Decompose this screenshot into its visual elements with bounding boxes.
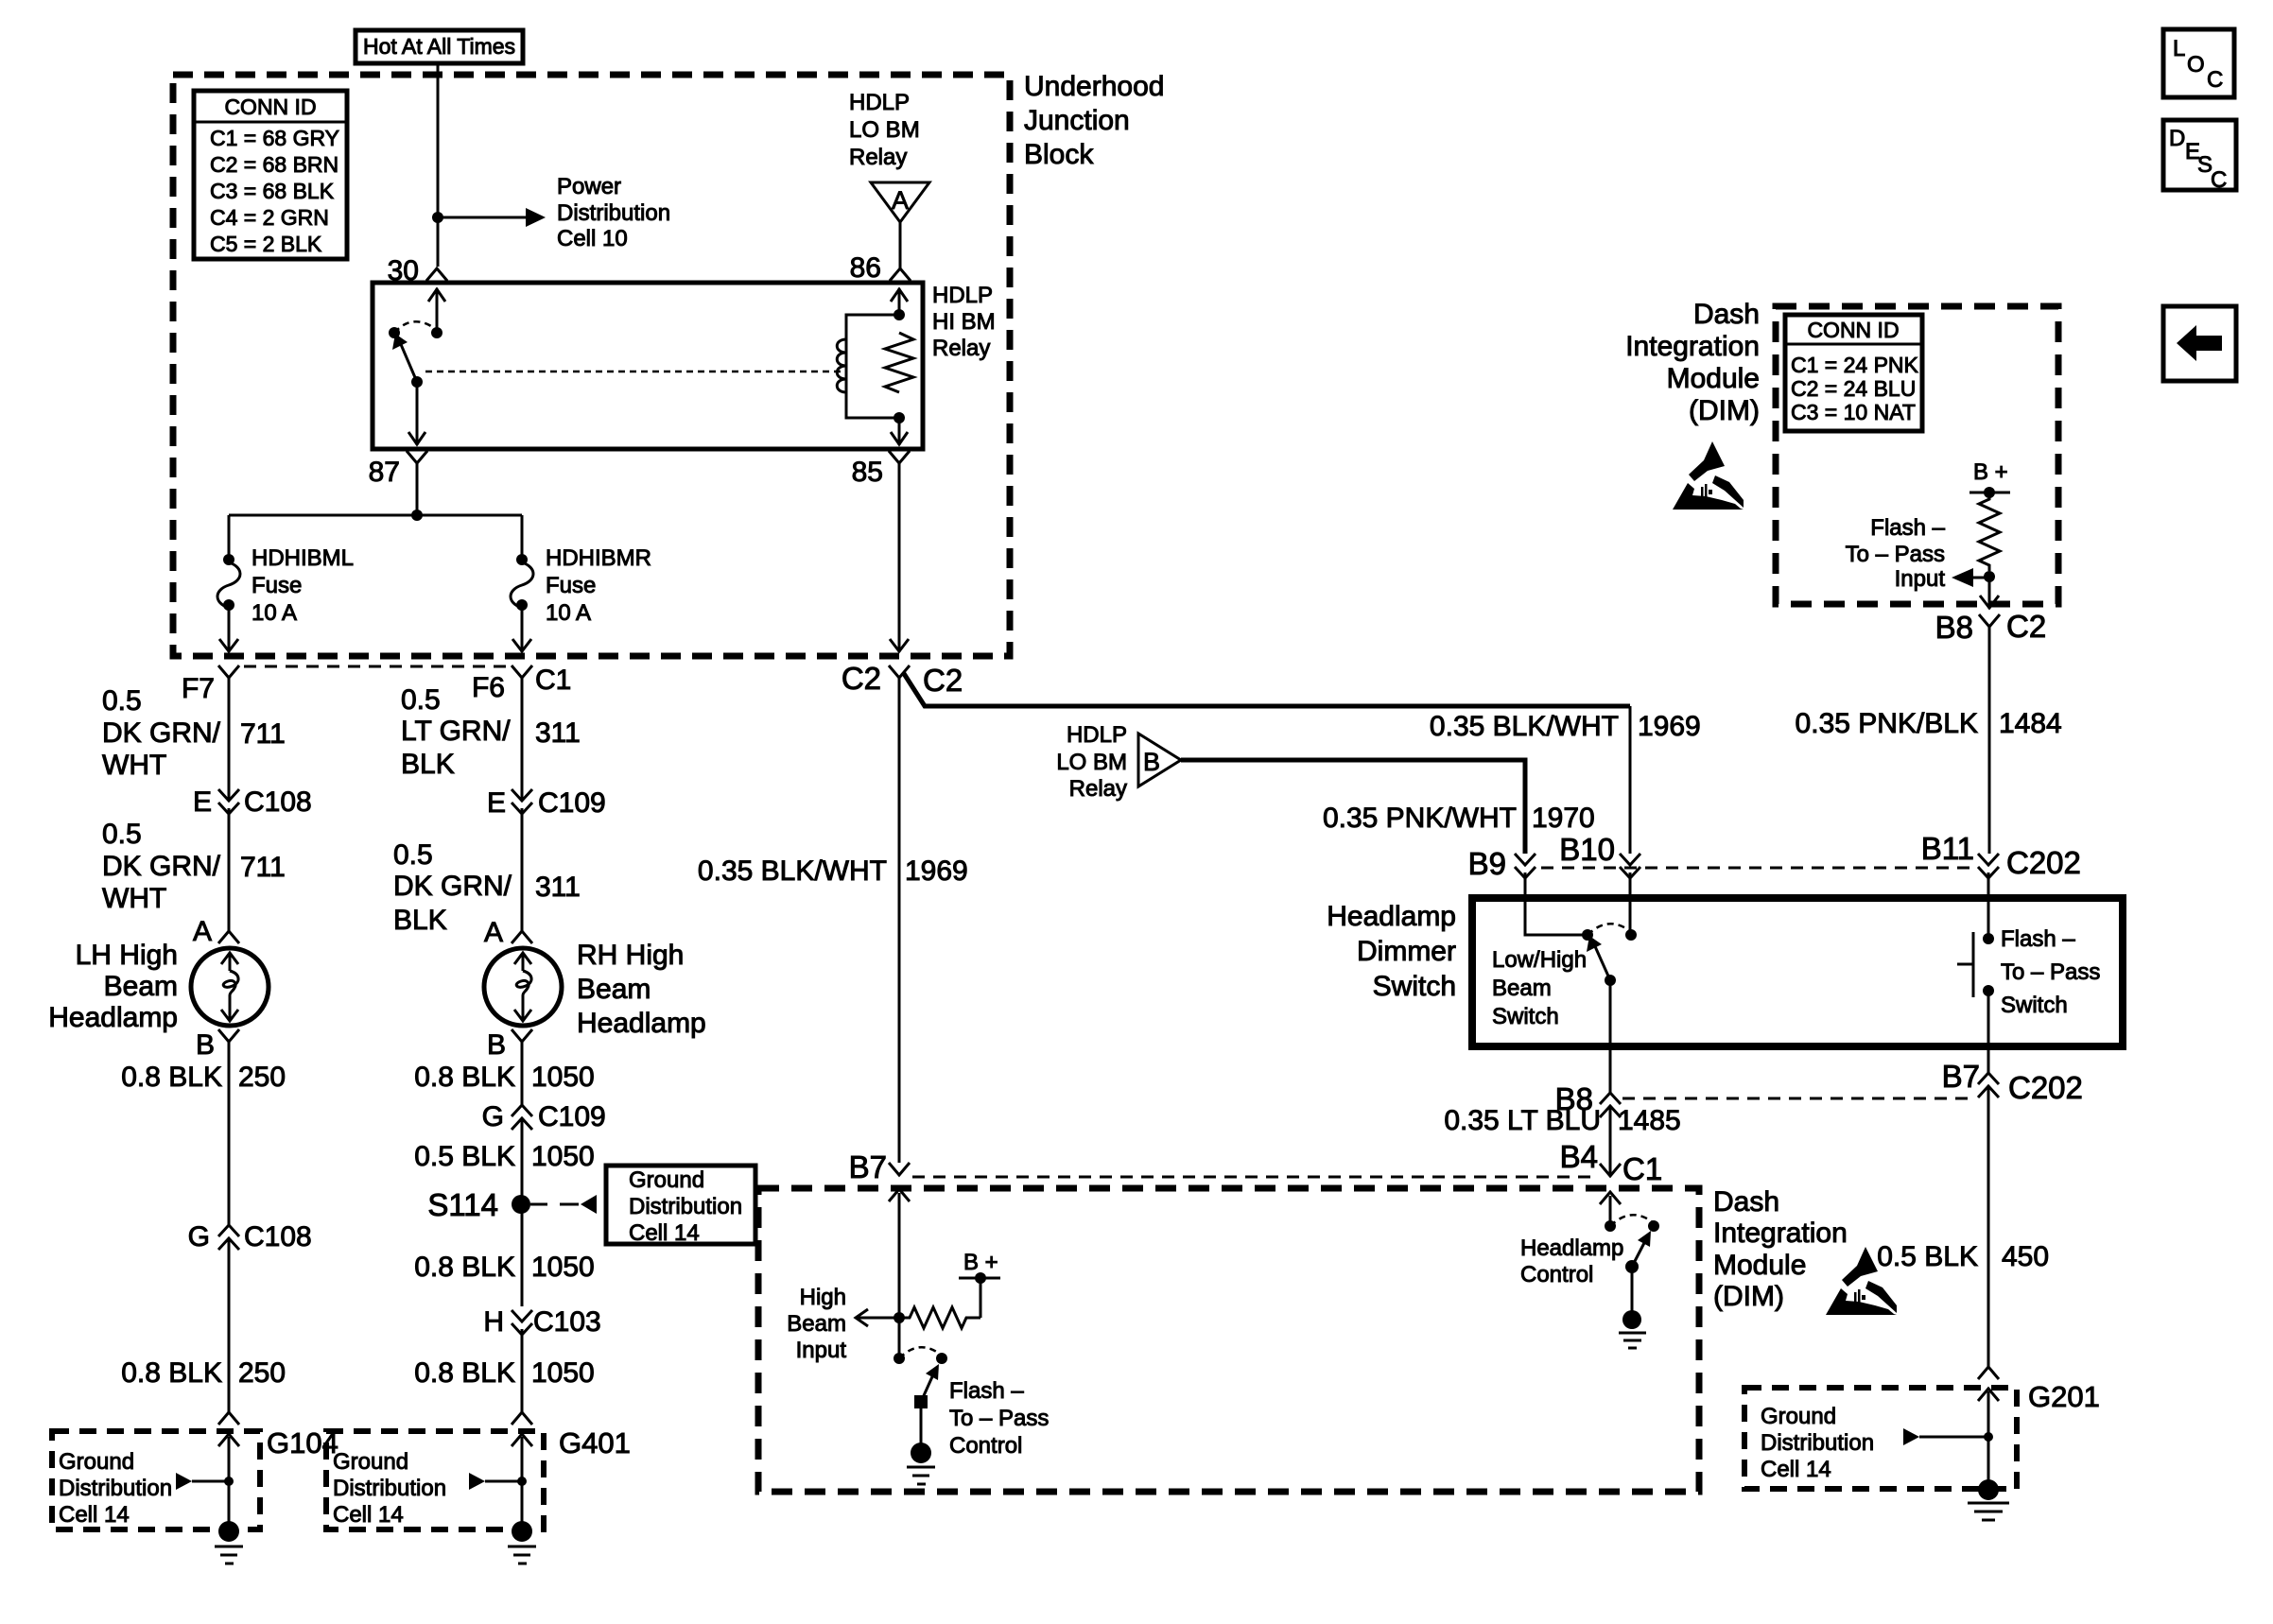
svg-text:LO BM: LO BM xyxy=(849,117,920,143)
DESC box xyxy=(2163,120,2236,193)
label Low/High Beam Switch xyxy=(1492,947,1587,1029)
wire arm to ground (FTP control) xyxy=(920,1402,923,1444)
flash-to-pass control throw arc xyxy=(899,1347,942,1358)
label High Beam Input xyxy=(787,1285,846,1363)
label HDLP HI BM Relay xyxy=(932,283,996,361)
wire arm to ground (headlamp control) xyxy=(1631,1267,1634,1312)
underhood junction block dashed box xyxy=(173,75,1010,656)
connector chevron B7 into DIM xyxy=(889,1189,910,1318)
svg-text:10 A: 10 A xyxy=(546,600,591,626)
svg-text:LO BM: LO BM xyxy=(1056,750,1127,775)
svg-text:C3 = 10 NAT: C3 = 10 NAT xyxy=(1791,400,1916,424)
svg-text:Cell 14: Cell 14 xyxy=(1761,1457,1831,1482)
connector fork at lamp pin B xyxy=(218,1029,239,1042)
svg-text:B8: B8 xyxy=(1935,610,1973,645)
LH high beam headlamp bulb xyxy=(191,948,269,1026)
HDLP LO BM Relay label (mid) xyxy=(1056,722,1127,802)
svg-text:Input: Input xyxy=(1895,566,1946,592)
svg-text:C3 = 68 BLK: C3 = 68 BLK xyxy=(210,179,335,203)
connector fork C2 xyxy=(889,665,910,678)
connector B7 right xyxy=(1978,1073,1999,1097)
svg-text:Junction: Junction xyxy=(1024,105,1130,136)
LOC box xyxy=(2163,29,2234,97)
svg-text:H: H xyxy=(483,1306,504,1338)
svg-text:1485: 1485 xyxy=(1618,1105,1681,1136)
svg-text:HDLP: HDLP xyxy=(932,283,993,308)
connector fork at RH lamp pin A xyxy=(512,931,532,943)
wire pin 85 down to UJB edge xyxy=(890,463,909,652)
fuse HDHIBML xyxy=(217,554,240,611)
relay pin 87 internal wire xyxy=(408,382,425,445)
svg-text:C2 = 24 BLU: C2 = 24 BLU xyxy=(1791,376,1916,401)
wire switch to B7 xyxy=(1987,991,1990,1073)
wire into G201 ground xyxy=(1987,1391,1990,1482)
connector fork F6 xyxy=(512,665,532,678)
relay switch pivot node xyxy=(389,327,400,338)
svg-text:C: C xyxy=(2207,67,2223,93)
low/high beam switch pivot node xyxy=(1582,929,1593,941)
wire branch to Power Distribution xyxy=(438,216,531,219)
label Dash Integration Module DIM (upper) xyxy=(1625,299,1760,426)
svg-text:Ground: Ground xyxy=(59,1449,134,1475)
svg-text:WHT: WHT xyxy=(102,883,166,914)
svg-text:Power: Power xyxy=(557,174,621,199)
svg-text:Distribution: Distribution xyxy=(1761,1430,1874,1456)
connector fork at RH lamp pin B xyxy=(512,1029,532,1042)
wire down to HDHIBML fuse xyxy=(228,515,231,560)
label 0.5 DK GRN/ BLK xyxy=(393,839,512,936)
wire pin 87 to fuse feed xyxy=(416,463,419,515)
svg-text:1969: 1969 xyxy=(905,855,968,887)
svg-text:A: A xyxy=(484,917,503,948)
svg-text:0.35 PNK/BLK: 0.35 PNK/BLK xyxy=(1796,708,1978,739)
flash-to-pass switch lower contact node xyxy=(1983,985,1994,996)
label LH High Beam Headlamp xyxy=(48,940,178,1033)
wire C2 down to B7 xyxy=(898,678,901,1163)
svg-text:HDHIBML: HDHIBML xyxy=(252,545,354,571)
wire F6 to C109 xyxy=(521,678,524,801)
wire C108 G to G104 xyxy=(228,1238,231,1412)
svg-text:HDLP: HDLP xyxy=(849,90,910,115)
svg-text:G201: G201 xyxy=(2028,1380,2100,1413)
svg-text:1050: 1050 xyxy=(531,1357,595,1389)
connector C202 dashed line (top row) xyxy=(1541,867,1976,870)
svg-text:1484: 1484 xyxy=(1999,708,2062,739)
svg-text:10 A: 10 A xyxy=(252,600,297,626)
svg-text:Cell 14: Cell 14 xyxy=(629,1220,700,1246)
ground G201 xyxy=(1968,1479,2009,1520)
headlamp control arm xyxy=(1632,1231,1651,1267)
svg-text:G: G xyxy=(188,1221,210,1253)
B+ terminal (DIM lower) xyxy=(959,1272,1000,1318)
svg-text:Relay: Relay xyxy=(849,145,907,170)
relay pin 30 internal arrow xyxy=(428,288,445,333)
svg-text:Module: Module xyxy=(1667,363,1760,394)
svg-text:B9: B9 xyxy=(1468,846,1506,881)
splice S114 xyxy=(512,1195,530,1214)
HDLP HI BM relay box xyxy=(373,283,923,449)
CONN ID table (UJB) xyxy=(194,91,347,259)
low/high beam switch arm node xyxy=(1605,975,1616,986)
svg-text:Distribution: Distribution xyxy=(333,1476,446,1501)
connector chevron into G104 xyxy=(218,1434,239,1446)
svg-text:To – Pass: To – Pass xyxy=(1846,542,1945,567)
svg-text:86: 86 xyxy=(850,252,881,284)
svg-text:Hot At All Times: Hot At All Times xyxy=(363,34,515,59)
wire jog from C2 to B10 drop xyxy=(903,672,1630,706)
wire down to HDHIBMR fuse xyxy=(521,515,524,560)
relay switch arm node xyxy=(411,376,423,388)
svg-text:DK GRN/: DK GRN/ xyxy=(393,871,512,902)
svg-text:711: 711 xyxy=(240,718,286,750)
svg-text:0.8 BLK: 0.8 BLK xyxy=(121,1062,222,1093)
svg-text:B7: B7 xyxy=(849,1149,887,1184)
wire B11 into switch box xyxy=(1987,872,1990,939)
wire F7 to C108 xyxy=(228,678,231,801)
svg-text:BLK: BLK xyxy=(393,905,447,936)
arrow to Power Distribution xyxy=(526,208,546,227)
svg-text:B4: B4 xyxy=(1560,1139,1598,1174)
svg-text:CONN ID: CONN ID xyxy=(1807,318,1899,342)
label Ground Distribution Cell 14 (S114) xyxy=(629,1167,742,1246)
svg-text:711: 711 xyxy=(240,852,286,883)
wire B7 down to G201 xyxy=(1987,1086,1990,1367)
HDLP LO BM Relay label (top) xyxy=(849,90,920,170)
wire triangle A to pin 86 xyxy=(899,222,902,268)
back arrow box xyxy=(2163,306,2236,381)
svg-text:S114: S114 xyxy=(427,1187,498,1222)
svg-text:C108: C108 xyxy=(244,1221,312,1253)
flash-to-pass control pivot node xyxy=(894,1353,905,1364)
ground (FTP control) xyxy=(907,1443,935,1484)
ground (headlamp control) xyxy=(1619,1310,1646,1348)
svg-text:C5 = 2 BLK: C5 = 2 BLK xyxy=(210,232,322,256)
svg-text:0.8 BLK: 0.8 BLK xyxy=(414,1062,515,1093)
ESD symbol (lower DIM) xyxy=(1826,1247,1897,1315)
svg-text:Distribution: Distribution xyxy=(59,1476,172,1501)
svg-text:Control: Control xyxy=(949,1433,1022,1459)
connector B8 xyxy=(1600,1093,1621,1117)
svg-text:0.5: 0.5 xyxy=(401,684,441,716)
ground G104 xyxy=(215,1521,243,1564)
high beam input junction node xyxy=(894,1312,905,1323)
svg-text:1969: 1969 xyxy=(1638,711,1701,742)
wire switch arm to B8 xyxy=(1609,980,1612,1093)
svg-text:C2: C2 xyxy=(923,663,963,698)
label Ground Distribution Cell 14 (G401) xyxy=(333,1449,446,1528)
wire RH lamp B to C109 G xyxy=(521,1042,524,1105)
label Flash To Pass Control xyxy=(949,1378,1049,1459)
label 0.5 DK GRN/ WHT xyxy=(102,685,221,781)
svg-text:(DIM): (DIM) xyxy=(1689,395,1760,426)
label Power Distribution Cell 10 xyxy=(557,174,670,251)
flash-to-pass input arrow xyxy=(1952,568,1989,587)
wire to flash-to-pass control switch xyxy=(898,1318,901,1358)
svg-text:85: 85 xyxy=(852,457,883,488)
svg-text:Distribution: Distribution xyxy=(557,200,670,226)
svg-text:Integration: Integration xyxy=(1713,1218,1848,1249)
svg-text:C1 = 24 PNK: C1 = 24 PNK xyxy=(1791,353,1919,377)
svg-text:DK GRN/: DK GRN/ xyxy=(102,717,221,749)
ESD symbol (upper DIM) xyxy=(1673,441,1744,510)
svg-text:Beam: Beam xyxy=(787,1311,846,1337)
in-line connector E C108 xyxy=(218,789,239,814)
flash-to-pass control contact node xyxy=(936,1353,947,1364)
ground distribution cell 14 box (G104) xyxy=(52,1431,260,1529)
svg-text:0.5 BLK: 0.5 BLK xyxy=(1877,1241,1978,1272)
wire C108 to lamp A xyxy=(228,808,231,931)
connector fork at pin 30 xyxy=(426,268,447,281)
label Flash To Pass Input xyxy=(1846,515,1946,592)
relay pin 86 internal arrow xyxy=(891,288,908,315)
wire from Hot At All Times down to pin 30 xyxy=(437,63,440,267)
svg-text:B7: B7 xyxy=(1942,1059,1980,1094)
connector fork B4 xyxy=(1600,1164,1621,1176)
flash-to-pass input resistor xyxy=(1979,492,2000,571)
in-line connector G C109 xyxy=(512,1105,532,1130)
svg-text:LT GRN/: LT GRN/ xyxy=(401,716,511,747)
svg-text:C202: C202 xyxy=(2006,845,2081,880)
headlamp control contact node xyxy=(1648,1220,1659,1232)
wire C109 to lamp A xyxy=(521,808,524,931)
flash-to-pass control arm node xyxy=(914,1395,928,1408)
svg-text:0.5: 0.5 xyxy=(393,839,433,871)
connector fork above G401 xyxy=(512,1412,532,1425)
svg-text:87: 87 xyxy=(369,457,400,488)
fuse HDHIBMR xyxy=(511,554,533,611)
svg-text:Integration: Integration xyxy=(1625,331,1760,362)
svg-text:D: D xyxy=(2169,126,2185,151)
wire B8 to B4 xyxy=(1609,1106,1612,1176)
connector fork above G201 xyxy=(1978,1367,1999,1379)
label Headlamp Control xyxy=(1520,1235,1623,1287)
svg-text:RH High: RH High xyxy=(577,940,684,971)
CONN ID table (DIM) xyxy=(1785,315,1922,431)
svg-text:Headlamp: Headlamp xyxy=(1520,1235,1623,1261)
ground distribution cell 14 box (G401) xyxy=(326,1431,544,1529)
svg-text:Dash: Dash xyxy=(1693,299,1760,330)
svg-text:CONN ID: CONN ID xyxy=(224,95,316,119)
svg-text:Ground: Ground xyxy=(333,1449,408,1475)
svg-text:B10: B10 xyxy=(1559,832,1615,867)
svg-text:Cell 14: Cell 14 xyxy=(333,1502,404,1528)
connector C202 dashed line (lower row) xyxy=(1622,1097,1974,1100)
label RH High Beam Headlamp xyxy=(577,940,706,1039)
headlamp control arm node xyxy=(1625,1260,1639,1273)
svg-text:C: C xyxy=(2211,167,2227,193)
svg-text:A: A xyxy=(193,916,212,947)
wire B9 into switch xyxy=(1525,872,1588,935)
svg-text:Beam: Beam xyxy=(577,974,651,1005)
svg-text:Cell 10: Cell 10 xyxy=(557,226,628,251)
ground G401 xyxy=(508,1521,536,1564)
flash-to-pass switch actuator bar xyxy=(1957,932,1973,997)
svg-text:0.8 BLK: 0.8 BLK xyxy=(414,1357,515,1389)
relay coil bumps xyxy=(837,339,846,392)
relay coil loop xyxy=(846,315,899,418)
svg-text:Beam: Beam xyxy=(104,971,178,1002)
svg-text:Flash –: Flash – xyxy=(2001,926,2075,952)
connector fork at lamp pin A xyxy=(218,931,239,943)
label 0.5 LT GRN/ BLK xyxy=(401,684,511,780)
svg-text:C109: C109 xyxy=(538,787,606,819)
svg-text:1050: 1050 xyxy=(531,1141,595,1172)
low/high beam switch throw arc xyxy=(1588,924,1631,935)
svg-text:HDHIBMR: HDHIBMR xyxy=(546,545,651,571)
svg-text:B: B xyxy=(487,1029,506,1061)
svg-text:F6: F6 xyxy=(472,672,505,703)
label Dash Integration Module DIM (lower) xyxy=(1713,1186,1848,1312)
relay mechanical link dashed xyxy=(425,371,842,373)
svg-text:0.35 PNK/WHT: 0.35 PNK/WHT xyxy=(1323,803,1517,834)
high beam input arrow xyxy=(856,1309,899,1326)
label 0.8 BLK 1050 (2) xyxy=(414,1252,595,1283)
connector fork B8 C2 xyxy=(1979,614,2000,627)
svg-text:G401: G401 xyxy=(559,1426,631,1460)
relay A source triangle xyxy=(871,182,929,222)
svg-text:B11: B11 xyxy=(1921,831,1974,866)
flash-to-pass switch upper contact node xyxy=(1983,933,1994,944)
svg-text:To – Pass: To – Pass xyxy=(949,1406,1049,1431)
wire lamp B to C108 G xyxy=(228,1042,231,1225)
headlamp control throw arc xyxy=(1610,1215,1654,1226)
svg-text:Flash –: Flash – xyxy=(1870,515,1945,541)
relay switch contact node xyxy=(431,327,442,338)
svg-text:Low/High: Low/High xyxy=(1492,947,1587,973)
connector B10 xyxy=(1620,854,1640,878)
svg-text:0.5 BLK: 0.5 BLK xyxy=(414,1141,515,1172)
label Underhood Junction Block xyxy=(1024,71,1164,170)
svg-text:Control: Control xyxy=(1520,1262,1593,1287)
svg-text:1050: 1050 xyxy=(531,1062,595,1093)
low/high beam switch contact node xyxy=(1625,929,1637,941)
svg-text:LH High: LH High xyxy=(76,940,178,971)
svg-text:0.35 BLK/WHT: 0.35 BLK/WHT xyxy=(698,855,887,887)
label 0.5 DK GRN/ WHT (2) xyxy=(102,819,221,914)
connector fork at pin 85 xyxy=(889,451,910,463)
connector chevron B4 into DIM xyxy=(1600,1192,1621,1226)
svg-text:F7: F7 xyxy=(182,673,215,704)
wire HDHIBMR fuse to UJB edge xyxy=(512,605,531,652)
wire into G104 ground xyxy=(228,1437,231,1524)
svg-text:250: 250 xyxy=(238,1062,286,1093)
ground distribution cell 14 box (G201) xyxy=(1744,1388,2017,1489)
G401 reference arrow xyxy=(469,1473,527,1490)
svg-text:Ground: Ground xyxy=(1761,1404,1836,1429)
relay switch arm xyxy=(392,334,417,382)
relay B source triangle xyxy=(1138,734,1181,786)
svg-text:O: O xyxy=(2187,52,2205,78)
label 0.8 BLK 1050 xyxy=(414,1062,595,1093)
svg-text:Headlamp: Headlamp xyxy=(48,1002,178,1033)
svg-text:Relay: Relay xyxy=(932,336,990,361)
headlamp control pivot node xyxy=(1605,1220,1616,1232)
svg-text:1970: 1970 xyxy=(1532,803,1595,834)
svg-text:C1: C1 xyxy=(535,665,571,696)
ground distribution cell 14 box (S114) xyxy=(606,1166,755,1244)
label HDHIBMR Fuse 10 A xyxy=(546,545,651,626)
relay coil resistor zigzag xyxy=(885,333,913,392)
svg-text:C109: C109 xyxy=(538,1101,606,1132)
svg-text:WHT: WHT xyxy=(102,750,166,781)
label 0.5 BLK 1050 xyxy=(414,1141,595,1172)
svg-text:E: E xyxy=(193,786,212,818)
svg-text:C2 = 68 BRN: C2 = 68 BRN xyxy=(210,152,338,177)
svg-text:Beam: Beam xyxy=(1492,976,1552,1001)
svg-text:To – Pass: To – Pass xyxy=(2001,959,2100,985)
svg-text:250: 250 xyxy=(238,1357,286,1389)
svg-text:Module: Module xyxy=(1713,1250,1806,1281)
svg-text:C108: C108 xyxy=(244,786,312,818)
svg-text:Underhood: Underhood xyxy=(1024,71,1164,102)
label 0.8 BLK 250 (2) xyxy=(121,1357,286,1389)
connector fork F7 xyxy=(218,665,239,678)
svg-text:Relay: Relay xyxy=(1069,776,1127,802)
svg-text:Switch: Switch xyxy=(1373,971,1456,1002)
svg-text:(DIM): (DIM) xyxy=(1713,1281,1784,1312)
G201 reference arrow xyxy=(1903,1428,1993,1445)
wire C103 to G401 xyxy=(521,1329,524,1412)
label Flash To Pass Switch xyxy=(2001,926,2100,1018)
Hot At All Times box xyxy=(356,30,523,63)
label 0.8 BLK 250 xyxy=(121,1062,286,1093)
relay coil top node xyxy=(894,309,905,320)
connector chevron into G401 xyxy=(512,1434,532,1446)
in-line connector E C109 xyxy=(512,789,532,814)
svg-text:G: G xyxy=(482,1101,504,1132)
svg-text:0.8 BLK: 0.8 BLK xyxy=(121,1357,222,1389)
svg-text:0.5: 0.5 xyxy=(102,685,142,717)
svg-text:B: B xyxy=(1143,748,1160,776)
svg-text:C1 = 68 GRY: C1 = 68 GRY xyxy=(210,126,339,150)
svg-text:311: 311 xyxy=(535,717,581,749)
wire B10 into switch xyxy=(1629,872,1632,935)
junction node at fuse feed xyxy=(411,510,423,521)
label 0.8 BLK 1050 (3) xyxy=(414,1357,595,1389)
svg-text:Distribution: Distribution xyxy=(629,1194,742,1219)
relay switch throw arc xyxy=(394,321,437,333)
G104 reference arrow xyxy=(176,1473,234,1490)
svg-text:0.35 BLK/WHT: 0.35 BLK/WHT xyxy=(1430,711,1619,742)
label Ground Distribution Cell 14 (G104) xyxy=(59,1449,172,1528)
wire into G401 ground xyxy=(521,1437,524,1524)
svg-text:450: 450 xyxy=(2002,1241,2049,1272)
wire triangle B to B9 drop xyxy=(1181,760,1525,854)
wire B8 C2 down to B11 xyxy=(1988,627,1991,854)
label Headlamp Dimmer Switch xyxy=(1327,901,1456,1002)
svg-text:C4 = 2 GRN: C4 = 2 GRN xyxy=(210,205,329,230)
in-line connector H C103 xyxy=(512,1310,532,1335)
dash integration module dashed box (lower) xyxy=(758,1188,1699,1492)
connector C1 dashed line between F7 and F6 xyxy=(244,665,507,668)
connector fork at pin 86 xyxy=(890,268,911,281)
low/high beam switch arm xyxy=(1587,936,1610,980)
svg-text:Fuse: Fuse xyxy=(252,573,302,598)
connector C1 dashed line (DIM row) xyxy=(912,1176,1596,1179)
svg-text:1050: 1050 xyxy=(531,1252,595,1283)
flash-to-pass input junction node xyxy=(1984,571,1995,582)
svg-text:E: E xyxy=(487,787,506,819)
svg-text:Headlamp: Headlamp xyxy=(1327,901,1456,932)
svg-text:C2: C2 xyxy=(842,661,881,696)
svg-text:High: High xyxy=(800,1285,846,1310)
svg-text:Fuse: Fuse xyxy=(546,573,596,598)
dash integration module dashed box (upper) xyxy=(1776,306,2058,604)
svg-text:Dash: Dash xyxy=(1713,1186,1779,1218)
svg-text:Headlamp: Headlamp xyxy=(577,1008,706,1039)
wire B10 drop xyxy=(1629,706,1632,854)
svg-text:0.35 LT BLU: 0.35 LT BLU xyxy=(1444,1105,1601,1136)
